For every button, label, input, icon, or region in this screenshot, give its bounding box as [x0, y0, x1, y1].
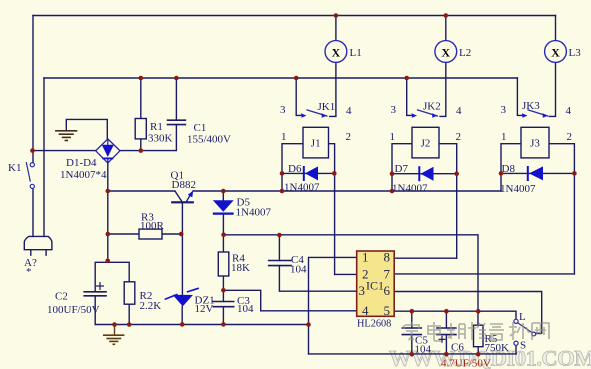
lamp L1 — [325, 41, 347, 63]
svg-text:1N4007: 1N4007 — [500, 183, 536, 195]
svg-text:C2: C2 — [55, 291, 68, 303]
node R5 top — [476, 309, 481, 314]
wire lamp L1 bottom to JK1 terminal4 — [330, 62, 336, 116]
svg-text:D7: D7 — [395, 163, 409, 175]
svg-text:6: 6 — [384, 283, 391, 298]
svg-text:104: 104 — [290, 264, 307, 276]
wire D5 bottom to R4 top — [222, 214, 224, 252]
wire JK2 terminal3 stub — [407, 78, 413, 115]
svg-text:HL2608: HL2608 — [357, 319, 391, 330]
wire C5 top stem — [411, 311, 413, 328]
wire supply rail y235 D5 node to R5 column — [224, 235, 478, 325]
wire base column Q1 to DZ1 — [181, 202, 183, 295]
wire C6 top stem — [445, 311, 447, 328]
capacitor C4 104 — [268, 261, 292, 266]
ground bottom — [103, 325, 124, 345]
wire R5 bottom stem — [477, 347, 479, 355]
node K1 bridge — [30, 148, 35, 153]
wire JK3 terminal3 stub — [517, 78, 523, 115]
node D8 right — [572, 171, 577, 176]
wire IC pin2 row — [335, 273, 357, 275]
svg-text:3: 3 — [280, 104, 286, 116]
wire C3 column — [222, 290, 224, 301]
wire IC pin6 row to lamp switch lever — [394, 292, 542, 334]
svg-text:X: X — [442, 45, 451, 59]
node C3 top — [221, 288, 226, 293]
svg-text:IC1: IC1 — [366, 279, 384, 293]
bridge rectifier inner diode — [102, 140, 114, 163]
node collector — [106, 189, 111, 194]
svg-text:L2: L2 — [459, 47, 471, 59]
node R3 left — [106, 232, 111, 237]
wire relay J2 pin1 lead — [392, 144, 412, 191]
wire ground rail y324 — [95, 324, 308, 326]
svg-text:S: S — [520, 340, 526, 352]
svg-text:J3: J3 — [530, 138, 540, 150]
wire relay J3 pin2 lead down to IC pin7 — [549, 144, 574, 274]
svg-text:D882: D882 — [172, 179, 196, 191]
node DZ1 bottom — [180, 322, 185, 327]
relay contact JK1 — [301, 110, 328, 118]
svg-text:100R: 100R — [140, 220, 165, 232]
svg-text:4.7UF/50V: 4.7UF/50V — [441, 358, 491, 369]
capacitor C5 104 — [402, 328, 423, 335]
capacitor C2 100UF/50V polarized — [83, 292, 106, 296]
diode D8 1N4007 — [528, 166, 543, 181]
svg-text:C6: C6 — [451, 342, 464, 354]
wire lamp L1 top — [335, 16, 337, 41]
diode D7 1N4007 — [419, 166, 433, 181]
wire lamp L2 top — [445, 16, 447, 41]
svg-text:2: 2 — [567, 131, 573, 143]
svg-text:L3: L3 — [569, 47, 582, 59]
svg-text:7: 7 — [384, 266, 391, 281]
wire JK1 terminal3 stub — [296, 78, 302, 115]
node C2 loop top — [105, 259, 110, 264]
svg-text:12V: 12V — [195, 303, 214, 315]
wire D5 top lead — [222, 191, 224, 200]
wire S terminal stub to bottom rail — [515, 345, 517, 354]
svg-text:D8: D8 — [502, 163, 516, 175]
svg-text:J1: J1 — [311, 138, 321, 150]
node R1 top — [139, 76, 144, 81]
resistor R5 750K — [474, 325, 484, 347]
resistor R2 2.2K — [124, 282, 135, 304]
wire diode D6 row — [282, 172, 334, 174]
svg-text:L: L — [519, 311, 526, 323]
node J2 pin1 rail — [390, 189, 395, 194]
zener DZ1 12V — [165, 288, 199, 306]
relay coil J3 — [521, 127, 549, 158]
svg-text:3: 3 — [501, 104, 507, 116]
node R1 bottom — [139, 148, 144, 153]
svg-text:1N4007: 1N4007 — [236, 207, 272, 219]
svg-text:L1: L1 — [350, 47, 362, 59]
node C6 top — [444, 309, 449, 314]
wire IC pin5 row — [394, 311, 516, 319]
svg-text:330K: 330K — [148, 133, 173, 145]
watermark chinese glyphs (vector approximation) — [404, 322, 549, 341]
node J1 pin1 rail — [280, 189, 285, 194]
svg-text:D1-D4: D1-D4 — [66, 157, 97, 169]
node D5 cathode rail — [221, 233, 226, 238]
node C5 bottom — [410, 352, 415, 357]
wire ground1 to bridge top — [66, 119, 107, 138]
wire C5 bottom stem — [411, 335, 413, 355]
diode D6 1N4007 — [304, 166, 318, 181]
IC U1 HL2608 body — [357, 251, 395, 316]
svg-text:2: 2 — [456, 131, 462, 143]
capacitor C1 155/400V — [167, 120, 187, 124]
svg-text:18K: 18K — [231, 262, 250, 274]
wire C4 bottom to IC pin3 row — [279, 266, 356, 292]
node D8 left — [499, 171, 504, 176]
diode D5 1N4007 — [213, 200, 234, 213]
node C5 top — [410, 309, 415, 314]
wire DZ1 anode to ground rail — [181, 306, 183, 324]
svg-text:2: 2 — [346, 131, 352, 143]
node D6 right — [332, 171, 337, 176]
lamp L2 — [435, 41, 457, 63]
wire C2 bottom stem — [94, 296, 96, 325]
resistor R1 330K — [135, 119, 146, 139]
svg-text:5: 5 — [384, 303, 391, 318]
svg-text:R1: R1 — [150, 121, 163, 133]
wire C6 bottom stem — [445, 335, 447, 355]
wire bridge right to R1/C1 bottom — [120, 125, 176, 151]
wire R3 right lead — [162, 233, 181, 235]
capacitor C3 104 — [213, 302, 235, 307]
svg-text:4: 4 — [456, 105, 462, 117]
node D5 anode — [221, 189, 226, 194]
capacitor C6 4.7UF/50V polarized — [436, 328, 457, 335]
svg-text:4: 4 — [566, 105, 572, 117]
svg-text:JK1: JK1 — [318, 101, 336, 113]
wire emitter rail y191 — [193, 190, 501, 192]
node D7 right — [454, 171, 459, 176]
node ground2 stem — [112, 322, 117, 327]
svg-text:8: 8 — [384, 249, 391, 264]
wire R3 left lead — [108, 233, 139, 235]
wire R1 top — [140, 78, 142, 119]
wire relay J3 pin1 lead — [501, 144, 521, 191]
wire neutral column to plug — [43, 78, 45, 236]
wire relay J1 pin2 lead to IC pin2 — [329, 144, 335, 275]
svg-text:3: 3 — [391, 104, 397, 116]
node R2 bottom — [127, 322, 132, 327]
wire bridge bottom column — [107, 163, 109, 262]
svg-text:JK2: JK2 — [423, 101, 441, 113]
svg-text:750K: 750K — [485, 342, 510, 354]
wire node row C3 to pin4 jog — [223, 290, 356, 311]
lamp L3 — [545, 41, 567, 63]
capacitor C6 plus sign — [439, 336, 446, 343]
resistor R4 18K — [218, 252, 229, 276]
svg-text:1: 1 — [390, 131, 396, 143]
op switch L/S — [514, 319, 536, 345]
wire second rail y78 — [44, 77, 517, 79]
wire C3 bottom stem — [222, 307, 224, 325]
ground top-left — [55, 120, 77, 141]
node ground rail end — [306, 322, 311, 327]
transistor Q1 D882 — [171, 191, 194, 203]
wire collector rail left segment — [108, 190, 175, 192]
svg-text:J2: J2 — [421, 138, 431, 150]
node C4 top — [277, 233, 282, 238]
svg-text:1N4007: 1N4007 — [392, 183, 428, 195]
node D7 left — [390, 171, 395, 176]
svg-text:4: 4 — [362, 303, 369, 318]
svg-text:1: 1 — [281, 131, 287, 143]
wire lamp L3 bottom to JK3 terminal4 — [550, 62, 556, 116]
wire diode D7 row — [392, 173, 457, 175]
node L2 top — [444, 13, 449, 18]
wire lamp L2 bottom to JK2 terminal4 — [440, 62, 446, 116]
wire relay J2 pin2 lead down to IC pin8 — [439, 144, 457, 259]
svg-text:D6: D6 — [288, 163, 302, 175]
wire R2 bottom stem — [128, 304, 130, 324]
svg-text:X: X — [551, 45, 560, 59]
wire top rail — [33, 15, 556, 17]
node C3 bottom — [221, 322, 226, 327]
node JK1 stub — [294, 76, 299, 81]
relay coil J2 — [412, 127, 439, 158]
svg-text:JK3: JK3 — [522, 100, 540, 112]
svg-text:100UF/50V: 100UF/50V — [47, 304, 100, 316]
svg-text:104: 104 — [415, 344, 432, 356]
wire IC pin8 to J1 relay drive column — [394, 257, 457, 259]
relay contact JK3 — [522, 110, 549, 118]
svg-text:1N4007: 1N4007 — [284, 182, 320, 194]
svg-text:C1: C1 — [194, 122, 207, 134]
svg-text:*: * — [26, 266, 32, 278]
svg-text:1: 1 — [501, 131, 507, 143]
relay coil J1 — [303, 127, 329, 158]
capacitor C2 plus sign — [96, 282, 104, 290]
node L1 top — [334, 13, 339, 18]
relay contact JK2 — [412, 110, 439, 118]
svg-text:2.2K: 2.2K — [140, 300, 162, 312]
wire IC pin7 row to J3 column — [394, 273, 574, 275]
node C1 top — [174, 76, 179, 81]
wire K1 bottom to plug — [32, 188, 34, 236]
node C6 bottom — [444, 352, 449, 357]
node R5 bottom — [476, 352, 481, 357]
svg-text:1N4007*4: 1N4007*4 — [60, 169, 107, 181]
wire IC pin1 to ground column — [309, 257, 357, 354]
node R3 right — [179, 232, 184, 237]
wire left mains column (top rail to K1) — [32, 16, 34, 163]
node D6 left — [280, 171, 285, 176]
wire bottom rail y354 — [309, 353, 517, 355]
switch K1 — [26, 162, 34, 188]
wire lamp L3 top — [555, 16, 557, 41]
node JK2 stub — [404, 76, 409, 81]
resistor R3 100R — [139, 229, 162, 239]
wire R4 bottom — [222, 276, 224, 290]
svg-text:104: 104 — [237, 303, 254, 315]
svg-text:3: 3 — [359, 283, 366, 298]
svg-text:1: 1 — [362, 249, 369, 264]
svg-text:K1: K1 — [8, 162, 21, 174]
svg-text:4: 4 — [346, 105, 352, 117]
wire K1 node to bridge left — [33, 150, 96, 152]
svg-text:X: X — [332, 45, 341, 59]
svg-text:155/400V: 155/400V — [187, 134, 231, 146]
wire C2/R2 loop top — [95, 262, 129, 292]
wire relay J1 pin1 lead — [282, 144, 303, 191]
wire diode D8 row — [501, 172, 574, 174]
plug A? — [24, 236, 52, 256]
wire R1 bottom — [140, 139, 142, 151]
wire C1 top — [175, 78, 177, 120]
wire C4 top stem — [278, 235, 280, 261]
bridge rectifier D1-D4 diamond — [96, 139, 120, 163]
